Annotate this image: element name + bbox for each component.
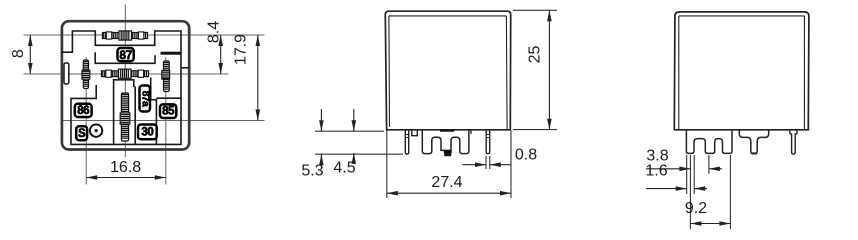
dim 0.8 line + arrows	[463, 164, 487, 166]
dim 5.3 line	[320, 109, 322, 131]
centerline row2 y=74 (dim 8 / 8.4 extension)	[24, 73, 229, 75]
central channel wall left + top shelf	[114, 80, 134, 145]
black bar right shelf	[161, 52, 181, 55]
svg-text:8.4: 8.4	[206, 21, 223, 43]
centerline vertical center column view1	[124, 5, 126, 158]
svg-text:30: 30	[141, 126, 153, 138]
coil pins comb (side view)	[686, 130, 732, 154]
pin 86 coil slot left (hatched)	[83, 60, 88, 89]
svg-text:1.6: 1.6	[645, 162, 667, 179]
centerline row1 y=35 (dim 8 / 8.4 / 17.9 extension)	[24, 34, 265, 36]
pin 30 slot center (hatched)	[121, 93, 128, 141]
pin 87a slot (hatched)	[102, 71, 149, 77]
relay cover outline (front view)	[385, 11, 510, 130]
svg-text:87a: 87a	[139, 91, 150, 107]
svg-text:4.5: 4.5	[333, 160, 355, 177]
svg-text:8: 8	[10, 49, 27, 58]
centerline vertical right column view1 (16.8 extension)	[165, 57, 167, 185]
dim 1.6	[646, 188, 687, 190]
dim 4.5 line	[353, 109, 355, 131]
dim 25 line	[548, 10, 550, 129]
body bottom edge	[387, 129, 511, 131]
inner right wall tick to outer edge	[181, 67, 189, 69]
pin standoff crown front view	[422, 130, 469, 153]
cover inner edge left (side)	[678, 16, 680, 130]
85 room top wall	[156, 97, 181, 99]
svg-text:85: 85	[162, 106, 175, 118]
shelf under 87a + wall between rooms	[151, 78, 157, 145]
svg-text:86: 86	[77, 105, 89, 117]
blade slot opening (black bar)	[440, 130, 454, 132]
label 87a	[140, 86, 151, 112]
cover inner edge right (side)	[803, 16, 805, 130]
cover inner top line (side)	[679, 15, 805, 17]
cover inner edge right	[505, 16, 508, 130]
dim 16.8 line	[86, 177, 166, 179]
cover inner top line	[389, 15, 507, 17]
cover inner edge left	[388, 16, 391, 127]
svg-text:17.9: 17.9	[233, 34, 250, 65]
svg-text:16.8: 16.8	[110, 159, 141, 176]
centerline row3 y=120.5 (dim 17.9 extension)	[61, 120, 265, 122]
relay housing outer outline (bottom view)	[62, 21, 189, 149]
dim 25 extension bottom	[513, 129, 557, 131]
label 30	[138, 125, 157, 140]
dim 27.4 extension right	[510, 131, 512, 199]
label 85	[160, 104, 176, 118]
pin 30 blade tip (black)	[444, 150, 452, 156]
svg-text:87: 87	[119, 48, 132, 62]
dim 8 vertical line	[29, 35, 31, 74]
left blind pocket	[64, 63, 69, 84]
ext lines view3 pins	[686, 155, 688, 194]
svg-text:25: 25	[527, 46, 544, 64]
svg-text:0.8: 0.8	[515, 147, 537, 164]
dim 8.4 vertical line	[220, 35, 222, 74]
dim 27.4 extension left	[386, 131, 388, 199]
relay cover outline (side view)	[674, 12, 809, 130]
pin 85 thin pin (side view)	[790, 130, 797, 154]
nub right of crown	[470, 130, 472, 134]
dim 0.8 extension lines	[485, 156, 487, 169]
centerline vertical left column view1 (16.8 extension)	[85, 57, 87, 185]
svg-text:5.3: 5.3	[301, 163, 323, 180]
dim 5.3/4.5 extension line pin tip	[315, 153, 403, 155]
dim 27.4 line	[387, 192, 511, 194]
label S	[76, 126, 87, 140]
pin 87 slot (hatched)	[103, 33, 148, 39]
blade tip shading (side)	[752, 152, 757, 154]
mounting stub	[412, 130, 418, 135]
dim 3.8	[646, 168, 690, 170]
inner mid shelf	[95, 52, 155, 63]
dim 17.9 vertical line	[257, 35, 259, 121]
dim 9.2	[690, 223, 730, 225]
svg-text:27.4: 27.4	[431, 174, 462, 191]
pin 86 (thin, left) front view	[405, 130, 408, 154]
pin 85 coil slot right (hatched)	[164, 61, 170, 92]
pin 85 (thin, right) front view	[486, 130, 490, 153]
inner housing stepped outline	[62, 31, 182, 144]
svg-text:9.2: 9.2	[685, 200, 707, 217]
datum circle with dot	[90, 124, 102, 136]
dim 5.3/4.5 extension line body bottom	[315, 130, 384, 132]
central channel wall right	[134, 87, 136, 145]
pin 30 standoff (side view)	[739, 130, 768, 154]
dim 25 extension top	[513, 9, 557, 11]
svg-text:S: S	[78, 128, 86, 140]
label 86	[75, 104, 92, 117]
label 87	[118, 48, 134, 61]
